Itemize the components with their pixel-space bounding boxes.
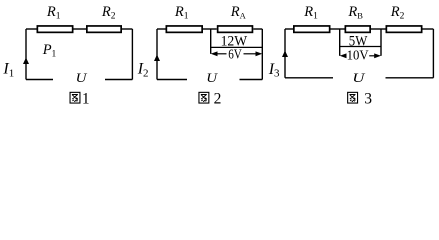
arrowhead: 10V left <box>340 53 347 58</box>
wire: circuit3 between RB and R2 with junction <box>371 28 386 30</box>
glyph: tu (figure) character for caption 1 <box>70 92 80 103</box>
svg-text:6V: 6V <box>228 48 242 63</box>
resistor RA (circuit2) <box>218 26 253 32</box>
svg-text:5W: 5W <box>349 34 368 50</box>
wire: junction drop between R1 and RA <box>210 29 212 54</box>
glyph: tu (figure) character for caption 2 <box>199 92 209 103</box>
wire: junction drop right of RB <box>380 29 382 56</box>
wire: circuit2 bottom left segment <box>157 79 187 81</box>
wire: circuit3 top right segment <box>423 28 434 30</box>
line: 10V arrow right segment <box>369 55 376 57</box>
wire: circuit3 left vertical <box>284 29 286 78</box>
arrowhead: current I1 (up) <box>23 58 29 65</box>
svg-text:U: U <box>352 71 365 85</box>
line: separator under 12W <box>211 46 263 48</box>
line: 10V arrow left segment <box>345 55 347 57</box>
wire: circuit2 bottom right segment <box>240 79 263 81</box>
resistor RB (circuit3) <box>345 26 370 32</box>
resistor R2 (circuit3) <box>386 26 421 32</box>
wire: circuit3 right vertical <box>432 29 434 78</box>
glyph: tu (figure) character for caption 3 <box>348 92 358 103</box>
wire: circuit2 left vertical <box>156 29 158 80</box>
wire: circuit1 top left segment <box>26 28 37 30</box>
wire: circuit3 bottom left segment <box>285 77 333 79</box>
wire: circuit1 bottom left segment <box>26 79 53 81</box>
wire: circuit1 left vertical <box>25 29 27 80</box>
svg-text:2: 2 <box>214 90 222 107</box>
arrowhead: 6V right <box>256 51 263 56</box>
wire: circuit1 top right segment <box>122 28 132 30</box>
wire: circuit3 between R1 and RB with junction <box>331 28 345 30</box>
line: separator under 5W <box>340 46 381 48</box>
arrowhead: current I2 (up) <box>154 55 160 62</box>
wire: circuit3 top left segment <box>285 28 293 30</box>
arrowhead: 6V left <box>211 51 218 56</box>
resistor R1 (circuit2) <box>166 26 202 32</box>
svg-text:1: 1 <box>82 90 90 107</box>
wire: circuit2 top left segment <box>157 28 166 30</box>
svg-text:3: 3 <box>364 90 372 107</box>
wire: junction drop left of RB <box>339 29 341 56</box>
wire: circuit1 between R1 and R2 <box>74 28 87 30</box>
arrowhead: current I3 (up) <box>282 51 288 58</box>
wire: circuit1 right vertical <box>131 29 133 80</box>
wire: circuit3 bottom right segment <box>386 77 434 79</box>
wire: circuit2 right vertical <box>261 29 263 80</box>
svg-text:U: U <box>206 71 218 85</box>
wire: circuit1 bottom right segment <box>105 79 132 81</box>
resistor R1 (circuit3) <box>294 26 330 32</box>
svg-text:U: U <box>76 71 88 85</box>
wire: circuit2 between R1 and RA with junction <box>203 28 217 30</box>
svg-text:10V: 10V <box>347 48 369 63</box>
wire: circuit2 top right segment <box>253 28 262 30</box>
line: 6V arrow right segment <box>244 53 258 55</box>
resistor R2 (circuit1) <box>87 26 121 32</box>
line: 6V arrow left segment <box>216 53 227 55</box>
arrowhead: 10V right <box>374 53 381 58</box>
resistor R1 (circuit1) <box>37 26 72 32</box>
